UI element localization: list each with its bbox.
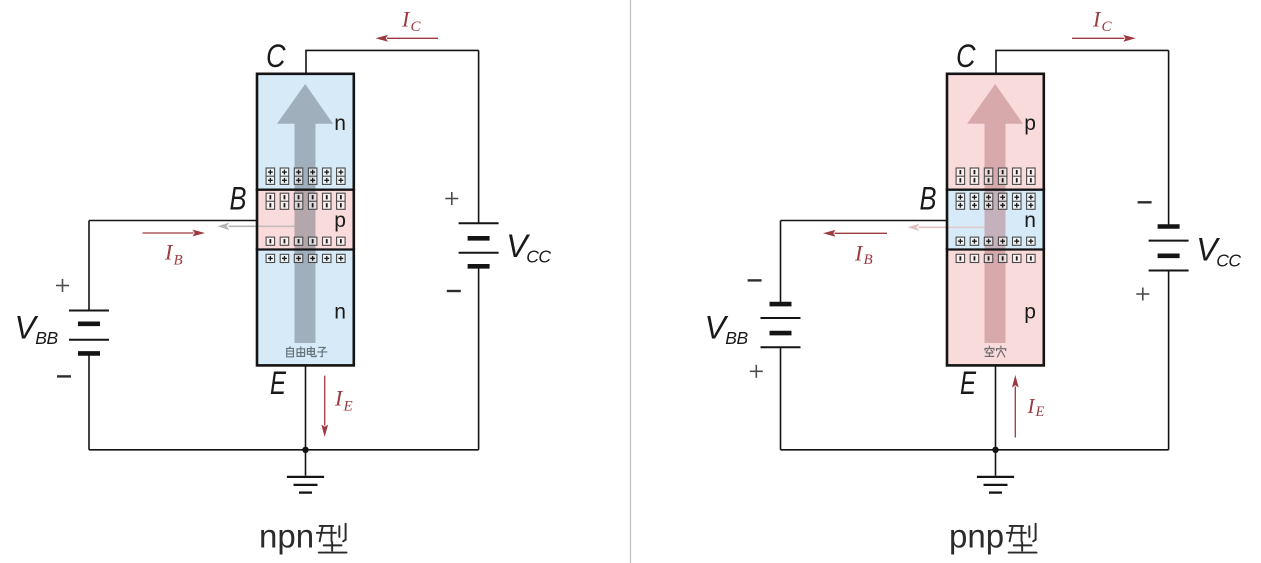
- svg-text:BB: BB: [35, 328, 58, 348]
- svg-text:npn: npn: [259, 518, 314, 555]
- svg-text:E: E: [1035, 404, 1045, 420]
- svg-text:E: E: [960, 365, 976, 401]
- svg-text:p: p: [1024, 301, 1036, 324]
- svg-text:B: B: [230, 181, 247, 217]
- svg-text:I: I: [1027, 394, 1036, 418]
- svg-text:CC: CC: [1216, 250, 1241, 270]
- svg-text:pnp: pnp: [949, 518, 1004, 555]
- svg-text:p: p: [334, 209, 346, 232]
- svg-text:C: C: [411, 19, 422, 35]
- svg-text:E: E: [343, 399, 353, 415]
- svg-text:B: B: [174, 253, 183, 269]
- svg-text:n: n: [334, 112, 346, 135]
- svg-text:E: E: [270, 365, 286, 401]
- svg-text:C: C: [1102, 19, 1113, 35]
- svg-text:C: C: [956, 38, 976, 74]
- svg-text:p: p: [1024, 112, 1036, 135]
- svg-text:B: B: [864, 252, 873, 268]
- svg-text:B: B: [920, 181, 937, 217]
- svg-text:n: n: [334, 301, 346, 324]
- svg-text:BB: BB: [725, 328, 748, 348]
- svg-text:n: n: [1024, 209, 1036, 232]
- svg-text:C: C: [266, 38, 286, 74]
- svg-text:CC: CC: [526, 247, 551, 267]
